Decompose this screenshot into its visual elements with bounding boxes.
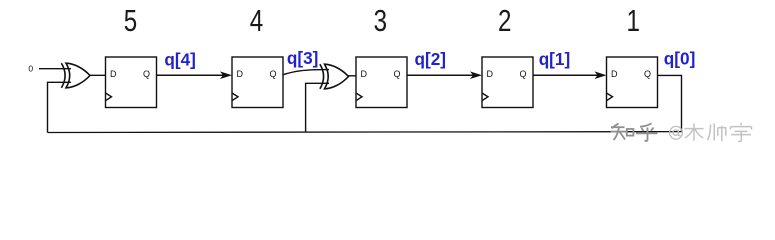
svg-text:q[4]: q[4] xyxy=(164,49,196,69)
flip-flop DFF1 xyxy=(607,57,658,108)
bit index label 1 xyxy=(626,3,639,38)
watermark char 宇 xyxy=(731,123,752,142)
net label q[4] xyxy=(164,49,196,69)
watermark char 帅 xyxy=(708,123,726,141)
svg-text:Q: Q xyxy=(644,69,651,79)
wire XOR1 output to FF5 D xyxy=(89,74,106,76)
bit index label 5 xyxy=(124,3,137,38)
watermark char 木 xyxy=(685,123,704,140)
flip-flop DFF2 xyxy=(482,57,533,108)
net label q[1] xyxy=(539,49,571,69)
svg-text:q[1]: q[1] xyxy=(539,49,571,69)
net label q[0] xyxy=(664,48,696,68)
wire FF3.Q to FF2.D xyxy=(407,74,475,76)
wire FF4.Q to XOR2 top input (s-curve) xyxy=(283,70,330,75)
pin label D of DFF5 xyxy=(110,69,117,79)
constant 0 input label xyxy=(28,64,33,74)
wire 0 to XOR1 top input xyxy=(39,68,71,70)
pin label Q of DFF4 xyxy=(269,69,276,79)
svg-text:3: 3 xyxy=(374,3,387,38)
svg-text:D: D xyxy=(611,69,618,79)
svg-text:0: 0 xyxy=(28,64,33,74)
wire FF5.Q to FF4.D xyxy=(157,74,225,76)
pin label D of DFF4 xyxy=(237,69,244,79)
arrowhead into FF4.D xyxy=(220,71,232,79)
pin label D of DFF1 xyxy=(611,69,618,79)
net label q[3] xyxy=(287,48,319,68)
svg-text:D: D xyxy=(110,69,117,79)
pin label Q of DFF3 xyxy=(393,69,400,79)
wire FF1.Q output to feedback corner xyxy=(658,75,682,131)
pin label Q of DFF1 xyxy=(644,69,651,79)
svg-text:D: D xyxy=(487,69,494,79)
bit index label 4 xyxy=(250,3,263,38)
watermark char 乎 xyxy=(636,123,658,141)
pin label Q of DFF5 xyxy=(143,69,150,79)
flip-flop DFF4 xyxy=(232,57,283,108)
pin label Q of DFF2 xyxy=(519,69,526,79)
flip-flop DFF5 xyxy=(106,57,157,108)
wire XOR1 bottom input (from feedback) xyxy=(48,82,72,132)
svg-text:Q: Q xyxy=(143,69,150,79)
watermark @ sign xyxy=(670,126,683,139)
svg-text:q[0]: q[0] xyxy=(664,48,696,68)
bit index label 2 xyxy=(498,3,511,38)
svg-text:q[3]: q[3] xyxy=(287,48,319,68)
svg-text:2: 2 xyxy=(498,3,511,38)
watermark char 知 xyxy=(611,123,634,140)
svg-text:D: D xyxy=(361,69,368,79)
wire FF2.Q to FF1.D xyxy=(533,74,599,76)
arrowhead into FF2.D xyxy=(470,71,482,79)
arrowhead into FF1.D xyxy=(595,71,607,79)
svg-text:1: 1 xyxy=(626,3,639,38)
flip-flop DFF3 xyxy=(356,57,407,108)
svg-text:4: 4 xyxy=(250,3,263,38)
wire XOR2 bottom input (from feedback) xyxy=(306,83,329,132)
xor gate U2 xyxy=(320,64,349,89)
svg-text:Q: Q xyxy=(269,69,276,79)
svg-text:Q: Q xyxy=(393,69,400,79)
svg-text:q[2]: q[2] xyxy=(415,49,447,69)
bit index label 3 xyxy=(374,3,387,38)
net label q[2] xyxy=(415,49,447,69)
svg-text:D: D xyxy=(237,69,244,79)
pin label D of DFF2 xyxy=(487,69,494,79)
feedback bottom wire xyxy=(48,131,682,134)
wire XOR2 output to FF3 D xyxy=(348,75,357,77)
pin label D of DFF3 xyxy=(361,69,368,79)
xor gate U1 xyxy=(61,63,90,88)
svg-text:5: 5 xyxy=(124,3,137,38)
svg-text:Q: Q xyxy=(519,69,526,79)
